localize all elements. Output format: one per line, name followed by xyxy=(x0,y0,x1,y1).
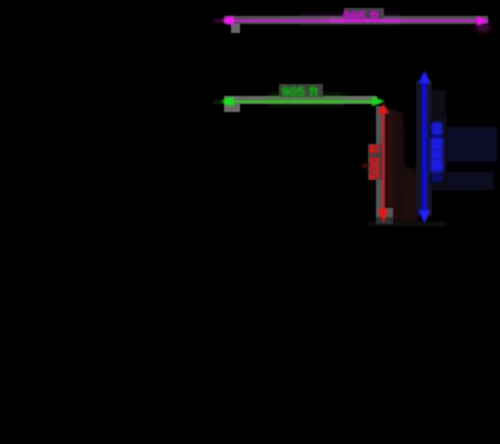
svg-text:905 ft: 905 ft xyxy=(282,84,319,100)
svg-text:995 ft: 995 ft xyxy=(343,8,380,24)
svg-text:500 ft: 500 ft xyxy=(368,144,383,180)
